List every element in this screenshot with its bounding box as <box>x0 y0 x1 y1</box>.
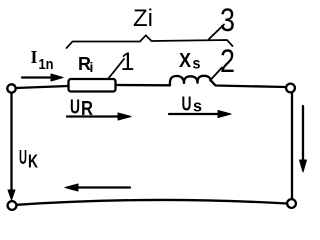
wire bottom <box>17 200 287 205</box>
arrow bottom (pointing left) <box>65 184 130 191</box>
svg-text:U: U <box>70 97 80 119</box>
inductor Xs <box>170 76 286 87</box>
label I1n <box>31 47 54 73</box>
terminal top-right <box>286 84 295 93</box>
brace Zi <box>67 35 233 48</box>
leader line to 3 <box>209 25 224 40</box>
svg-text:1n: 1n <box>39 56 54 73</box>
resistor Ri <box>69 79 116 92</box>
svg-text:I: I <box>31 47 38 67</box>
current arrow right side (pointing down) <box>300 106 307 172</box>
voltage arrow UK (left wire, pointing down) <box>8 93 15 200</box>
svg-text:R: R <box>81 98 93 120</box>
leader line to 1 <box>108 59 124 79</box>
leader line to 2 <box>210 68 222 81</box>
label UK <box>19 147 38 172</box>
wire right side <box>291 93 293 199</box>
svg-text:1: 1 <box>121 48 135 76</box>
svg-text:U: U <box>19 147 27 169</box>
svg-text:s: s <box>193 56 201 73</box>
svg-text:s: s <box>193 97 202 116</box>
wire resistor to inductor <box>116 84 171 87</box>
terminal bottom-right <box>287 199 296 208</box>
label Us <box>182 94 203 116</box>
svg-text:Zi: Zi <box>133 5 153 32</box>
svg-text:K: K <box>28 152 38 172</box>
terminal bottom-left <box>8 201 17 210</box>
voltage arrow UR <box>67 113 131 120</box>
current arrow I1n <box>22 74 63 81</box>
svg-text:3: 3 <box>220 2 235 38</box>
voltage arrow Us <box>169 111 231 118</box>
svg-text:U: U <box>182 94 192 116</box>
terminal top-left <box>7 84 15 92</box>
svg-text:i: i <box>90 59 94 75</box>
svg-text:X: X <box>179 50 192 72</box>
label Ri <box>78 54 93 75</box>
label UR <box>70 97 93 121</box>
svg-text:2: 2 <box>220 43 235 79</box>
label Xs <box>179 50 201 73</box>
wire top-left to resistor <box>16 86 68 88</box>
